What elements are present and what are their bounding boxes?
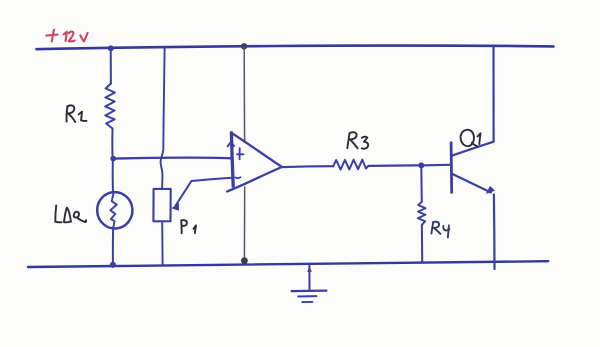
op-amp + input marking	[237, 148, 243, 159]
junction: top rail / op-amp supply line	[241, 43, 247, 49]
op-amp - input marking	[235, 176, 240, 179]
ground symbol stem	[308, 264, 310, 291]
ground rail (bottom)	[28, 261, 548, 267]
resistor R3	[333, 160, 368, 170]
label P1	[181, 220, 196, 233]
op-amp supply line (lower, dark ink)	[243, 187, 245, 260]
junction: top rail / R1 branch	[108, 45, 114, 51]
op-amp U1 triangle bottom edge	[227, 167, 282, 191]
junction: R3 / R4 / Q1 base	[418, 162, 424, 168]
op-amp U1 triangle top edge	[231, 133, 282, 167]
label +12v (red)	[46, 30, 87, 42]
wire: R4 to bottom rail	[421, 225, 423, 262]
wire: op-amp output to R3	[282, 165, 333, 168]
wire: R1 to node A	[111, 129, 113, 159]
ground bar 3	[302, 301, 312, 303]
LDR (photoresistor) body	[96, 191, 134, 230]
ground bar 2	[298, 295, 316, 297]
label R4	[431, 222, 449, 238]
ground stem arrow blob	[307, 266, 312, 272]
transistor Q1 collector stroke	[452, 142, 494, 156]
label Q1	[461, 130, 481, 147]
wire: junction to R4	[420, 165, 423, 201]
wire: Q1 emitter to bottom rail	[493, 195, 496, 270]
transistor Q1 emitter stroke	[452, 174, 491, 193]
op-amp supply line (upper, dark ink)	[243, 47, 245, 143]
op-amp U1 triangle left edge	[231, 133, 233, 186]
node A (junction to op-amp + input)	[110, 156, 116, 162]
junction: bottom rail / op-amp supply line	[241, 257, 248, 264]
small chevron on op-amp left edge	[228, 142, 234, 147]
label LDR	[55, 206, 86, 223]
label R3	[347, 132, 368, 149]
wire: R3 to junction	[368, 164, 421, 167]
Q1 emitter arrowhead	[486, 186, 495, 194]
wire: pot P1 bottom lead	[161, 221, 163, 265]
wire: pot wiper to op-amp inverting input	[176, 178, 232, 206]
resistor R4	[418, 202, 426, 225]
wiper arrowhead	[171, 203, 179, 211]
label R1	[67, 105, 87, 122]
wire: Q1 collector to top rail	[492, 47, 494, 142]
potentiometer P1 body	[153, 189, 170, 221]
resistor R1	[105, 84, 115, 129]
transistor Q1 base bar	[450, 143, 453, 193]
wire: R1 top lead	[110, 49, 112, 84]
wire: node A to op-amp + input	[113, 156, 231, 159]
junction: bottom rail / LDR branch	[110, 262, 116, 268]
wire: junction to Q1 base	[421, 164, 450, 167]
wire: pot P1 top lead from rail (with wobble over + wire)	[161, 48, 165, 189]
wire: node A to LDR	[112, 159, 114, 192]
LDR internal zigzag	[110, 193, 117, 228]
+12V supply rail (top)	[37, 46, 554, 50]
ground bar 1	[292, 290, 327, 293]
wire: LDR to bottom rail	[112, 228, 114, 264]
